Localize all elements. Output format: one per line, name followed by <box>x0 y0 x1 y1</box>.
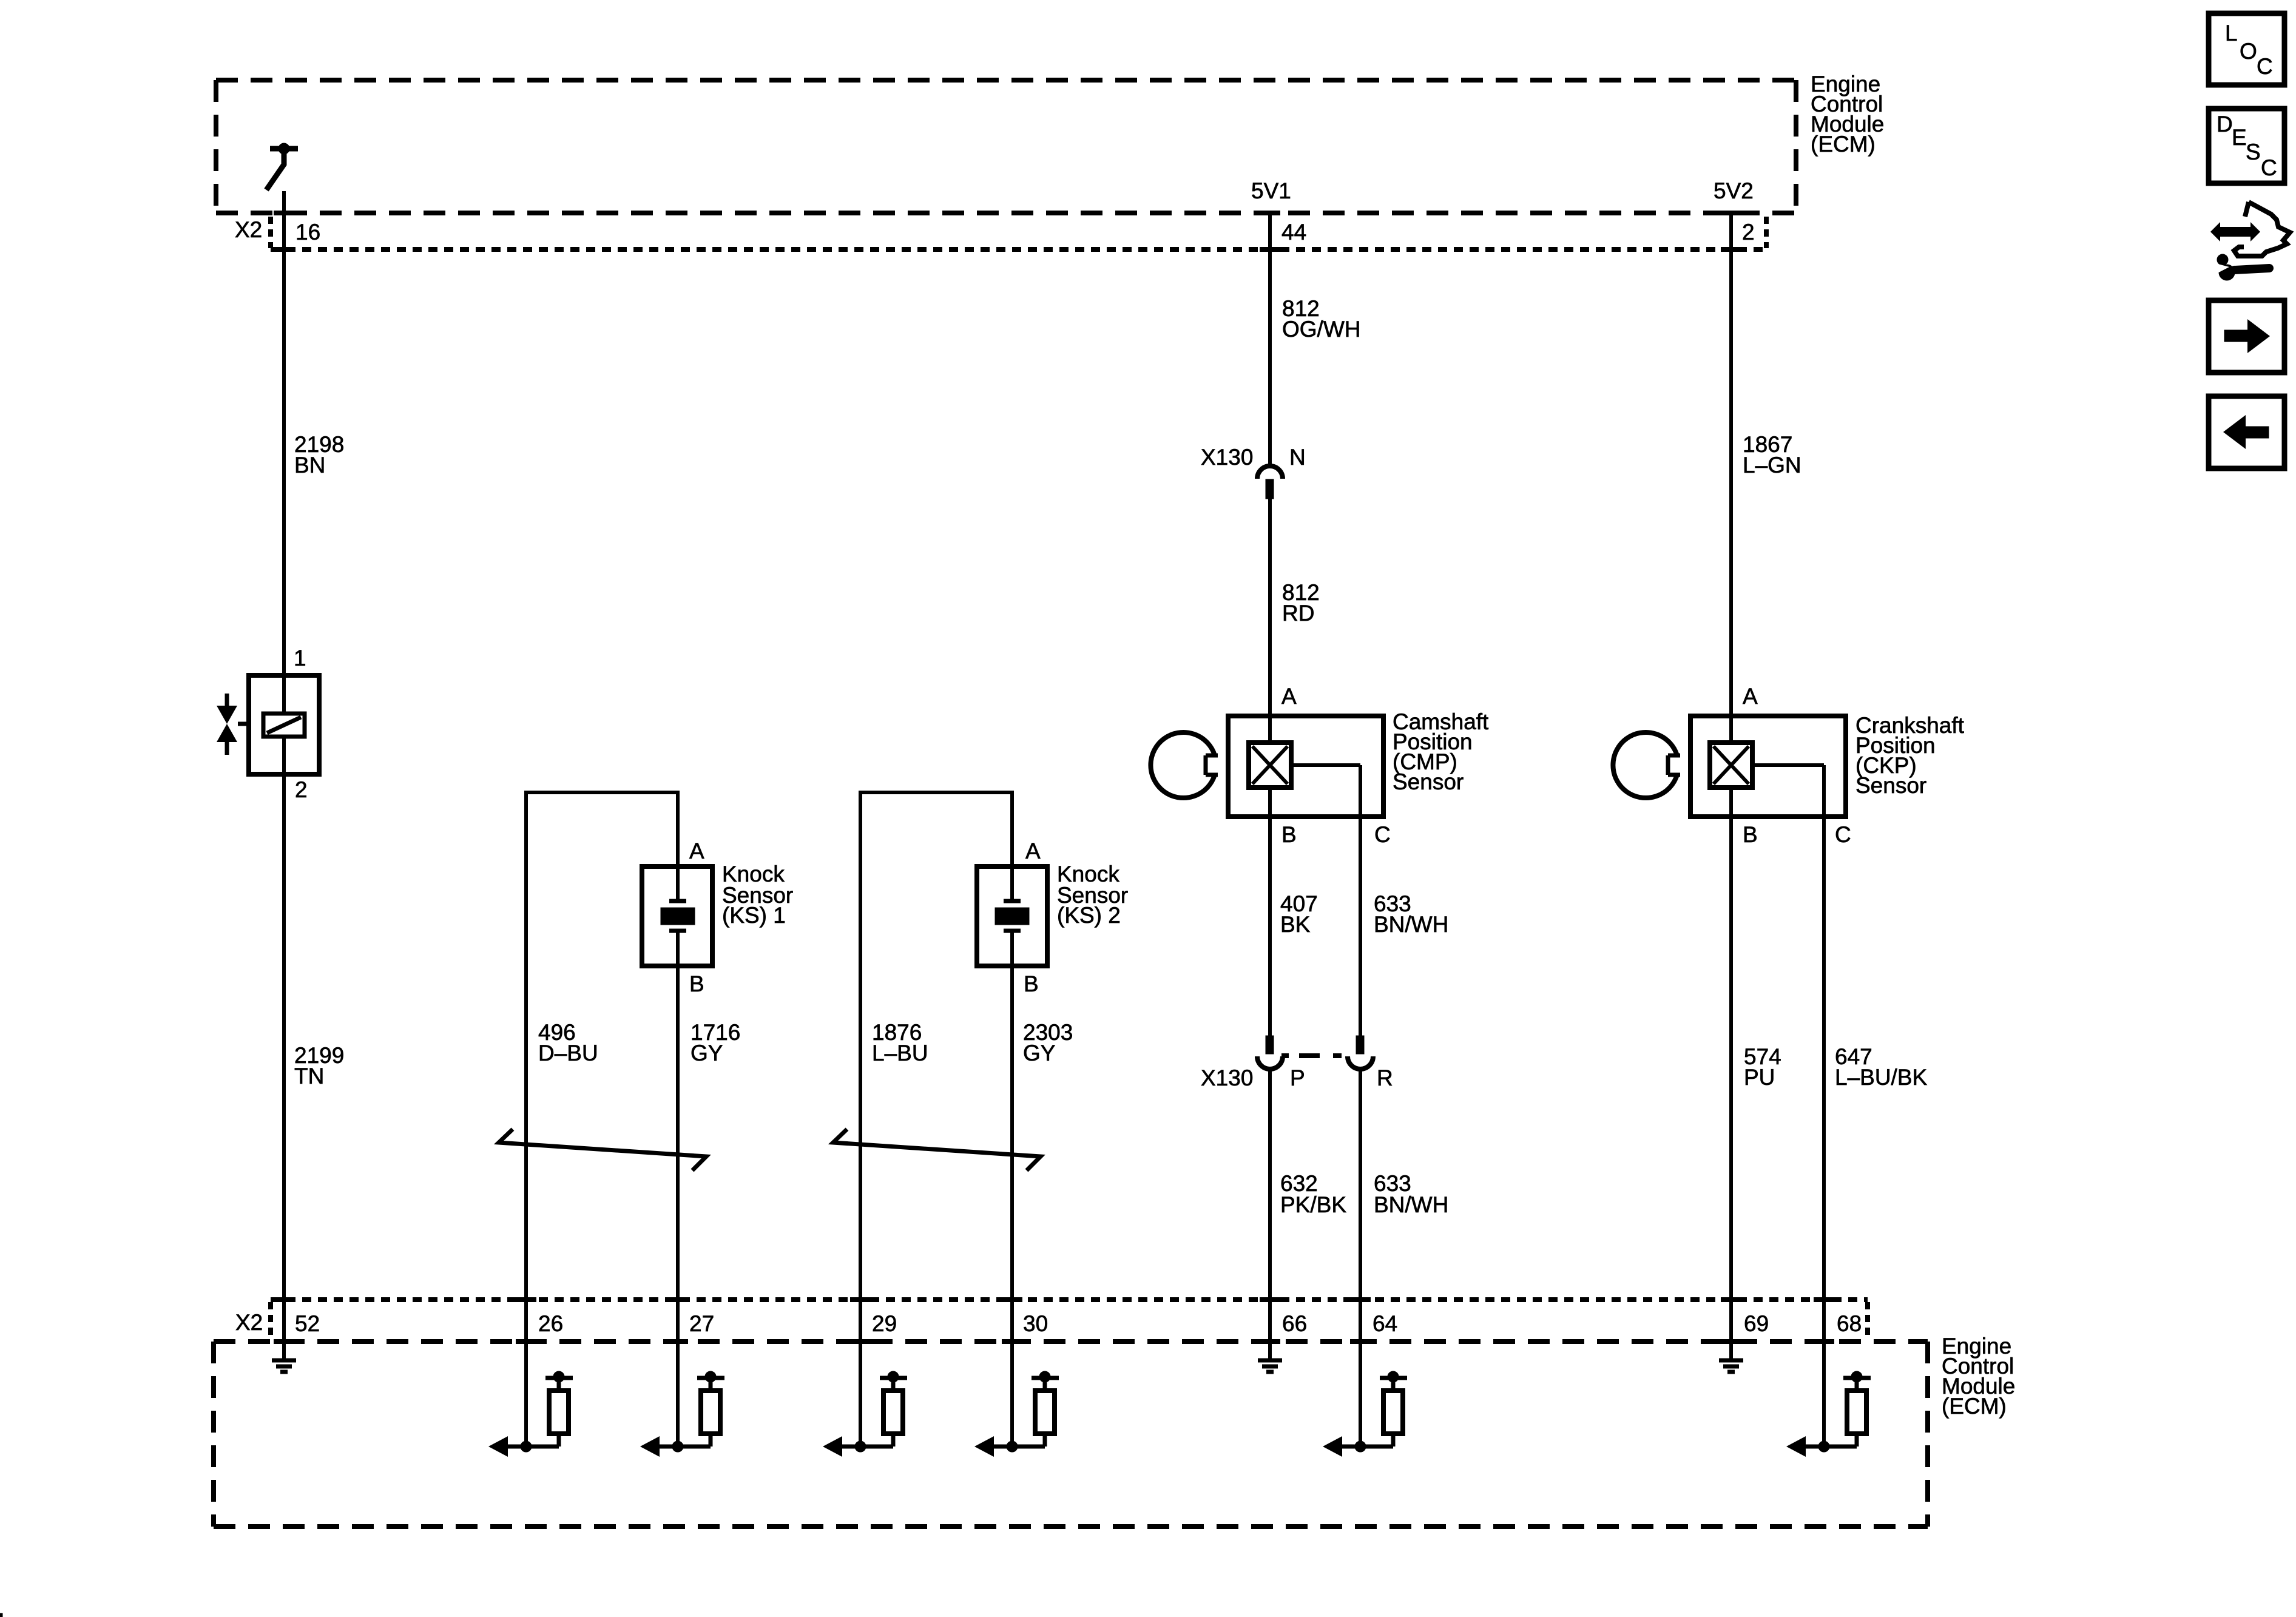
ECM bottom dashed box outline <box>214 1339 1928 1344</box>
svg-text:27: 27 <box>689 1311 714 1336</box>
svg-text:B: B <box>1024 971 1039 996</box>
svg-text:C: C <box>2261 155 2277 180</box>
KS2 top rail <box>860 791 1012 794</box>
internal resistor/arrow pin 30 <box>1010 1342 1014 1447</box>
svg-text:X130: X130 <box>1201 1065 1253 1090</box>
svg-text:B: B <box>689 971 704 996</box>
KS1 crystal body <box>661 908 695 925</box>
CKP inner sensing element box <box>1710 743 1752 788</box>
svg-text:5V1: 5V1 <box>1251 178 1291 203</box>
svg-text:R: R <box>1377 1065 1393 1090</box>
KS1 twisted pair symbol <box>499 1129 706 1170</box>
DESC icon box <box>2209 109 2284 183</box>
connector right separator (bottom strip) <box>1865 1302 1870 1338</box>
forward arrow icon box <box>2209 300 2284 373</box>
svg-text:X130: X130 <box>1201 445 1253 470</box>
wire 633 BN/WH (R to pin64) <box>1359 1069 1362 1342</box>
CMP internal wire to pin C <box>1289 763 1360 767</box>
CKP internal wire to pin C <box>1750 763 1824 767</box>
KS2 crystal body <box>995 908 1029 925</box>
adjust icon glove outline <box>2234 202 2290 256</box>
svg-text:2: 2 <box>295 777 308 802</box>
KS1 top rail <box>526 791 678 794</box>
wire 1867 L-GN (pin2 to CKP A) <box>1729 213 1733 743</box>
svg-text:2: 2 <box>1742 220 1755 245</box>
X130 P male terminal <box>1266 1036 1274 1054</box>
valve symbol lower triangle <box>217 724 237 742</box>
switch contact dot <box>279 143 289 154</box>
connector pin tick marks <box>274 211 294 215</box>
svg-text:64: 64 <box>1373 1311 1397 1336</box>
svg-text:TN: TN <box>294 1064 324 1089</box>
svg-text:Sensor: Sensor <box>1393 769 1464 794</box>
wire 496 D-BU vertical (pin26) <box>524 791 528 1342</box>
wire 812 RD (X130 N to CMP A) <box>1268 499 1272 743</box>
svg-text:66: 66 <box>1282 1311 1307 1336</box>
valve symbol bottom stub <box>225 741 229 755</box>
KS1 pin A wire <box>676 791 680 900</box>
CMP sensor box <box>1228 716 1383 817</box>
svg-text:C: C <box>1374 822 1391 847</box>
svg-text:(ECM): (ECM) <box>1811 132 1876 157</box>
X130 P female arc <box>1257 1056 1283 1069</box>
svg-text:44: 44 <box>1281 220 1306 245</box>
svg-text:D: D <box>2217 112 2233 137</box>
internal resistor/arrow pin 26 <box>524 1342 528 1447</box>
svg-text:BN/WH: BN/WH <box>1374 1192 1448 1217</box>
wire 632 PK/BK (P to pin66) <box>1268 1069 1272 1342</box>
svg-text:Sensor: Sensor <box>1855 773 1926 798</box>
adjust icon double arrow <box>2210 222 2260 241</box>
connector bottom fine-dashed line (top strip) <box>271 247 1766 252</box>
X130 N male terminal <box>1266 479 1274 499</box>
wire 1876 L-BU vertical (pin29) <box>859 791 862 1342</box>
connector X2 separator (top strip) <box>268 217 273 248</box>
ground pin 69 <box>1729 1342 1733 1360</box>
svg-text:N: N <box>1289 445 1306 470</box>
KS2 crystal top plate <box>1004 899 1021 903</box>
connector right separator (top strip) <box>1764 217 1769 248</box>
CKP sensor box <box>1690 716 1846 817</box>
CKP reluctor circle <box>1613 732 1677 798</box>
svg-text:BN/WH: BN/WH <box>1374 912 1448 937</box>
svg-text:X2: X2 <box>235 1310 263 1335</box>
ground pin 52 <box>282 1342 286 1360</box>
svg-text:GY: GY <box>690 1041 723 1065</box>
svg-text:OG/WH: OG/WH <box>1282 317 1360 342</box>
svg-text:L–BU: L–BU <box>872 1041 928 1065</box>
svg-text:BN: BN <box>294 453 325 478</box>
switch blade <box>266 153 284 190</box>
svg-text:A: A <box>1281 684 1297 709</box>
CMP reluctor circle <box>1150 732 1215 798</box>
solenoid left tick <box>238 722 249 726</box>
wire 2199 TN (solenoid to pin52) <box>282 737 286 1342</box>
page corner mark <box>0 1613 2 1617</box>
X130 R female arc <box>1348 1056 1373 1069</box>
CMP inner sensing element box <box>1249 743 1291 788</box>
X130 R male terminal <box>1356 1036 1364 1054</box>
svg-text:69: 69 <box>1744 1311 1769 1336</box>
svg-text:(ECM): (ECM) <box>1942 1394 2007 1419</box>
X130 P-R dashed link <box>1281 1053 1289 1058</box>
svg-text:PU: PU <box>1744 1065 1775 1090</box>
connector top fine-dashed line (bottom strip) <box>271 1297 1868 1302</box>
CKP element X <box>1714 746 1749 784</box>
KS2 crystal bottom plate <box>1004 929 1021 933</box>
svg-text:C: C <box>1835 822 1851 847</box>
wire 812 OG/WH (pin44 to X130 N) <box>1268 213 1272 465</box>
svg-text:E: E <box>2232 125 2247 150</box>
svg-text:(KS) 1: (KS) 1 <box>722 903 786 928</box>
switch contact bar <box>270 146 298 152</box>
KS2 twisted pair symbol <box>833 1129 1041 1170</box>
svg-text:30: 30 <box>1023 1311 1048 1336</box>
svg-text:(KS) 2: (KS) 2 <box>1057 903 1121 928</box>
svg-text:X2: X2 <box>235 217 262 242</box>
svg-text:L–GN: L–GN <box>1743 453 1801 478</box>
svg-text:GY: GY <box>1023 1041 1055 1065</box>
svg-text:L: L <box>2225 21 2238 46</box>
internal resistor/arrow pin 68 <box>1822 1342 1826 1447</box>
svg-text:RD: RD <box>1282 601 1314 626</box>
svg-text:S: S <box>2246 140 2261 164</box>
KS1 crystal top plate <box>669 899 686 903</box>
CKP pin B wire <box>1729 788 1733 1342</box>
solenoid coil rect <box>263 714 305 737</box>
svg-text:29: 29 <box>872 1311 897 1336</box>
svg-text:A: A <box>1025 839 1041 863</box>
svg-text:1: 1 <box>294 646 306 670</box>
KS1 pin B wire <box>676 930 680 1342</box>
KS2 pin A wire <box>1010 791 1014 900</box>
KS1 crystal bottom plate <box>669 929 686 933</box>
internal resistor/arrow pin 64 <box>1359 1342 1362 1447</box>
back arrow icon box <box>2209 396 2284 468</box>
CMP element X <box>1252 746 1288 784</box>
wire 2198 BN (pin16 to solenoid) <box>282 191 286 714</box>
valve symbol top stub <box>225 694 229 706</box>
connector X2 separator (bottom strip) <box>268 1302 273 1338</box>
X130 N female arc <box>1257 466 1283 479</box>
svg-text:16: 16 <box>295 220 320 245</box>
internal resistor/arrow pin 29 <box>859 1342 862 1447</box>
svg-text:O: O <box>2240 39 2257 64</box>
svg-text:52: 52 <box>295 1311 320 1336</box>
svg-text:68: 68 <box>1837 1311 1862 1336</box>
KS2 pin B wire <box>1010 930 1014 1342</box>
LOC icon box <box>2209 13 2284 85</box>
svg-text:B: B <box>1281 822 1297 847</box>
adjust icon wrench <box>2219 265 2235 280</box>
ground pin 66 <box>1268 1342 1272 1360</box>
knock sensor KS1 box <box>642 866 712 966</box>
svg-text:P: P <box>1290 1065 1305 1090</box>
CMP actuator solenoid valve box <box>249 675 319 774</box>
internal resistor/arrow pin 27 <box>676 1342 680 1447</box>
svg-text:D–BU: D–BU <box>538 1041 598 1065</box>
ECM top dashed box outline <box>216 78 1796 83</box>
valve symbol upper triangle <box>217 706 237 724</box>
svg-text:B: B <box>1743 822 1758 847</box>
svg-text:A: A <box>689 839 704 863</box>
svg-text:5V2: 5V2 <box>1714 178 1754 203</box>
solenoid coil diagonal <box>267 717 301 733</box>
svg-text:A: A <box>1743 684 1758 709</box>
CMP pin B wire <box>1268 788 1272 1037</box>
svg-text:C: C <box>2257 54 2273 79</box>
svg-text:26: 26 <box>538 1311 563 1336</box>
knock sensor KS2 box <box>977 866 1047 966</box>
svg-text:PK/BK: PK/BK <box>1280 1192 1346 1217</box>
svg-text:BK: BK <box>1280 912 1311 937</box>
svg-text:L–BU/BK: L–BU/BK <box>1835 1065 1928 1090</box>
